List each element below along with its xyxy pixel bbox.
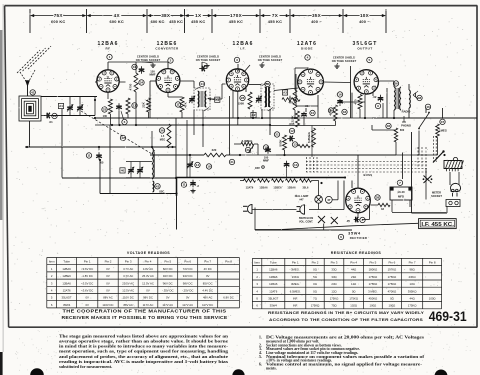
wire [193,110,195,135]
svg-text:450KΩ: 450KΩ [369,297,378,301]
electrolytic 40-40 MFD [390,187,412,200]
svg-text:ON TUBE SOCKET: ON TUBE SOCKET [136,58,161,62]
wire [109,125,111,193]
svg-text:7Ω: 7Ω [313,297,317,301]
svg-text:0V: 0V [186,296,190,300]
svg-text:36: 36 [387,124,391,128]
tube V2 12BE6 converter [156,69,180,93]
svg-text:40: 40 [121,168,125,172]
svg-text:25.5V AC: 25.5V AC [122,281,134,285]
wire [372,117,438,119]
svg-text:34: 34 [140,81,144,85]
svg-text:44Ω: 44Ω [409,297,414,301]
alignment ruler [29,9,31,33]
svg-text:98V DC: 98V DC [143,296,153,300]
wire [365,117,372,118]
svg-text:0V: 0V [106,281,110,285]
svg-text:Pin 2: Pin 2 [105,260,112,264]
ref 42 [30,90,35,95]
svg-text:-.35V DC: -.35V DC [162,289,174,293]
svg-text:37: 37 [441,120,445,124]
svg-text:102Ω: 102Ω [350,304,357,308]
capacitor .05 ref 8 [354,219,356,221]
svg-text:175KΩ: 175KΩ [330,297,339,301]
resistor 220K [296,111,300,127]
wire [130,174,132,178]
ref 46 [425,104,430,109]
wire [95,124,136,126]
tube V4 12AT6 [298,69,324,95]
resistor 22K [126,98,130,114]
resistor 47K [282,98,300,102]
wire [411,132,413,213]
ref 11 [86,153,91,158]
wire [295,67,308,69]
svg-text:10X: 10X [360,13,370,18]
svg-text:<3.6V DC: <3.6V DC [81,267,93,271]
svg-text:18: 18 [207,165,211,169]
wire [449,172,451,185]
svg-text:0Ω: 0Ω [390,297,394,301]
svg-text:0Ω: 0Ω [313,268,317,272]
svg-text:Pin 5: Pin 5 [164,260,171,264]
svg-text:0V: 0V [85,296,89,300]
ref 7 [397,180,402,185]
wire [437,138,439,156]
wire [261,109,263,118]
wire [94,97,96,116]
ref 38 [375,195,380,200]
svg-text:180KΩ: 180KΩ [369,268,378,272]
ref 16 [52,113,57,118]
capacitor bypass [118,103,120,106]
wire [270,125,336,127]
capacitor .05 [199,68,202,70]
wire [295,80,297,90]
wire [323,81,350,84]
svg-text:RECTIFIER: RECTIFIER [350,236,367,240]
wire [332,199,338,201]
page edge artifacts [0,30,2,220]
ruler segment 170X [213,15,230,17]
svg-text:Pin 1: Pin 1 [292,260,299,264]
svg-text:85V DC: 85V DC [203,281,213,285]
svg-text:.01: .01 [49,120,53,124]
wire [323,224,325,230]
svg-text:12AT6: 12AT6 [63,289,71,293]
svg-text:175KΩ: 175KΩ [311,304,320,308]
wire [362,219,370,221]
svg-text:5: 5 [51,296,53,300]
svg-text:455 KC: 455 KC [268,19,282,24]
resistor 500K [283,135,287,150]
test point A1 [215,97,220,102]
svg-text:Volume control at maximum, no: Volume control at maximum, no signal app… [266,362,423,366]
ref 9 [375,103,380,108]
svg-text:Tube: Tube [270,260,277,264]
svg-text:16: 16 [53,114,57,118]
wire [210,98,222,100]
svg-text:5: 5 [369,58,371,62]
test point 40 [120,168,125,173]
svg-text:400 ~: 400 ~ [311,19,322,24]
svg-text:0V: 0V [106,289,110,293]
svg-text:100Ω: 100Ω [389,304,396,308]
ruler segment 7X [261,15,271,17]
svg-text:6: 6 [340,235,342,239]
wire [313,118,315,128]
svg-text:6.8V DC: 6.8V DC [223,296,234,300]
ref 45 [265,81,270,86]
svg-text:98Ω: 98Ω [409,268,414,272]
svg-text:175KΩ: 175KΩ [349,297,358,301]
svg-text:175KΩ: 175KΩ [369,282,378,286]
svg-text:Pin 3: Pin 3 [331,260,338,264]
svg-text:Pin 8: Pin 8 [429,260,436,264]
resistor cathode T2 [180,97,184,112]
wire [261,109,263,118]
svg-text:33: 33 [381,207,384,211]
wire [135,92,137,125]
wire [269,125,271,135]
svg-text:BUSS: BUSS [364,173,373,177]
svg-text:Pin 7: Pin 7 [204,260,211,264]
wire [175,147,177,178]
svg-text:11: 11 [182,183,186,187]
svg-text:RECEIVER MAKES IT POSSIBLE TO: RECEIVER MAKES IT POSSIBLE TO BRING YOU … [62,315,228,320]
switch lever [433,152,444,163]
svg-text:OFF: OFF [255,166,261,170]
svg-text:35L6GT: 35L6GT [62,296,72,300]
svg-text:19: 19 [264,146,268,150]
ref 13 [292,142,297,147]
svg-text:2: 2 [256,275,258,279]
wire [61,109,63,178]
svg-text:45: 45 [266,82,270,86]
svg-text:ON TUBE SOCKET: ON TUBE SOCKET [258,58,283,62]
svg-text:44: 44 [200,82,204,86]
svg-text:5.: 5. [259,355,262,359]
wire [254,208,256,231]
wire [343,181,345,210]
svg-text:.2: .2 [197,184,200,188]
svg-text:34: 34 [329,109,333,113]
svg-text:#47: #47 [299,199,304,202]
wire [175,118,177,147]
wire [452,200,454,207]
wire [312,180,317,182]
capacitor .01 [303,112,305,114]
wire [446,207,448,214]
wire [364,93,366,102]
ref 12 [289,128,294,133]
ref 31 [229,159,234,164]
svg-text:12BA6: 12BA6 [269,268,278,272]
svg-text:197KΩ: 197KΩ [388,268,397,272]
svg-text:1: 1 [51,267,53,271]
svg-text:150K: 150K [238,102,244,106]
switch [419,113,429,128]
svg-text:175KΩ: 175KΩ [369,275,378,279]
svg-text:35W4: 35W4 [348,231,361,235]
svg-text:0V: 0V [206,274,210,278]
resistor 470 ohm cathode [358,95,362,110]
svg-text:METER: METER [432,191,441,195]
ref 11 [132,103,137,108]
AC plug [248,205,253,214]
svg-text:Pin 3: Pin 3 [125,260,132,264]
wire [408,84,410,90]
svg-text:OUTPUT: OUTPUT [357,47,372,51]
svg-text:4.4V DC: 4.4V DC [202,289,213,293]
svg-text:470KΩ: 470KΩ [388,289,397,293]
wire [41,115,45,117]
wire [391,200,393,212]
wire [377,80,379,82]
svg-text:117V AC: 117V AC [143,303,154,307]
svg-text:12BA6: 12BA6 [287,186,296,189]
svg-text:3 MEG.: 3 MEG. [368,289,378,293]
svg-text:-1.8V DC: -1.8V DC [81,274,93,278]
svg-text:9: 9 [377,104,379,108]
svg-text:600 KC: 600 KC [51,19,65,24]
svg-text:116V DC: 116V DC [102,303,113,307]
svg-text:12.5V AC: 12.5V AC [142,281,154,285]
wire [339,105,341,107]
wire [369,196,371,204]
wire [357,155,359,188]
wire [151,131,153,144]
svg-text:400 ~: 400 ~ [359,19,370,24]
wire [237,91,239,125]
ref 6 [338,234,343,239]
svg-text:110V DC: 110V DC [123,296,134,300]
svg-text:4X: 4X [114,13,121,18]
svg-text:72V DC: 72V DC [183,267,193,271]
pointer wire [352,223,418,226]
wire [357,213,359,217]
ref 34 [139,80,144,85]
wire [135,62,137,73]
svg-text:Pin 5: Pin 5 [369,260,376,264]
punch hole [232,369,244,375]
wire [69,97,71,105]
svg-text:THE COOPERATION OF THE MANUFAC: THE COOPERATION OF THE MANUFACTURER OF T… [63,309,227,314]
svg-text:3.7V AC: 3.7V AC [123,267,133,271]
wire [69,112,71,116]
svg-text:.05: .05 [100,161,104,165]
svg-text:48: 48 [418,96,422,100]
svg-text:RESISTANCE READINGS: RESISTANCE READINGS [331,251,382,255]
tube V5 35L6GT output [354,70,378,94]
wire [149,95,151,118]
svg-text:12BA6: 12BA6 [62,267,71,271]
svg-text:.05: .05 [346,219,350,223]
wire [335,121,337,126]
svg-text:I.F. 455 KC.: I.F. 455 KC. [421,222,454,228]
svg-text:MMF: MMF [263,159,269,163]
svg-text:175KΩ: 175KΩ [388,275,397,279]
capacitor C1 .01 [44,115,47,117]
svg-text:6.: 6. [259,362,262,366]
ruler segment 38X [148,15,161,17]
wire [244,65,250,72]
wire [412,212,448,214]
svg-text:0V: 0V [106,267,110,271]
wire [377,80,395,82]
svg-text:12BA6: 12BA6 [259,186,268,189]
ref 30 [245,147,250,152]
wire [181,112,183,118]
long wires mid [95,117,295,119]
wire [229,96,231,155]
svg-text:455 KC: 455 KC [169,19,183,24]
wire [240,154,285,156]
svg-text:Pin 6: Pin 6 [388,260,395,264]
svg-text:470: 470 [354,99,358,104]
wire [202,110,204,147]
wire [150,154,204,156]
svg-text:46: 46 [426,105,430,109]
svg-text:35L6GT: 35L6GT [268,297,278,301]
svg-text:ments.: ments. [266,366,277,370]
wire [442,108,444,118]
wire [130,162,132,168]
wire [284,150,286,155]
svg-text:7X: 7X [272,13,279,18]
wire [98,147,100,150]
svg-text:395KΩ: 395KΩ [408,289,417,293]
svg-text:500K: 500K [279,139,283,147]
ref 47 [325,196,332,203]
wire [294,110,296,118]
ref 28 [240,95,245,100]
svg-text:CONVERTER: CONVERTER [155,47,179,51]
svg-text:48V AC: 48V AC [203,296,212,300]
svg-text:MEG: MEG [160,139,166,142]
svg-text:3MEG.: 3MEG. [291,282,300,286]
wire [340,122,342,125]
svg-text:7: 7 [399,181,401,185]
ruler segment 10X [344,15,360,17]
svg-text:3MEG.: 3MEG. [291,268,300,272]
svg-text:12BA6: 12BA6 [269,282,278,286]
ref 19 [263,145,268,150]
svg-text:4: 4 [256,289,258,293]
wire [370,203,373,205]
svg-text:5: 5 [256,297,258,301]
svg-text:23Ω: 23Ω [331,282,336,286]
test point A3 [282,90,287,95]
svg-text:35L6: 35L6 [302,186,309,189]
svg-text:4: 4 [51,289,53,293]
svg-text:117V AC: 117V AC [182,303,193,307]
svg-text:23Ω: 23Ω [351,275,356,279]
svg-text:Pin 4: Pin 4 [350,260,357,264]
svg-text:A1: A1 [59,104,63,108]
svg-text:94V DC: 94V DC [163,274,173,278]
IF 455 KC box [419,219,457,229]
ref 4 [305,55,310,60]
wire [318,203,320,209]
ref 36 [393,81,398,86]
svg-text:455 KC: 455 KC [229,19,243,24]
svg-text:0V: 0V [85,303,89,307]
variable cap C14 [189,161,191,164]
svg-text:12BE6: 12BE6 [269,275,278,279]
wire [232,90,234,118]
svg-text:33Ω: 33Ω [331,275,336,279]
svg-text:14: 14 [196,163,200,167]
ref 41 [120,135,125,140]
ruler segment 35X [291,15,312,17]
svg-text:11: 11 [87,154,91,158]
B+ buss dashed [306,161,428,163]
svg-text:Tube: Tube [63,260,70,264]
svg-text:100: 100 [103,114,108,118]
svg-text:12Ω: 12Ω [331,289,336,293]
osc coil L2 [152,148,153,179]
svg-text:Pin 8: Pin 8 [225,260,232,264]
svg-text:98V DC: 98V DC [183,281,193,285]
svg-text:94V DC: 94V DC [183,274,193,278]
svg-text:0V: 0V [166,296,170,300]
svg-text:A3: A3 [283,91,287,95]
svg-text:12: 12 [290,129,294,133]
svg-text:75X: 75X [54,13,64,18]
ref 2 [168,58,173,63]
wire [392,203,398,205]
speaker [409,90,410,108]
line cord resistor [444,161,462,169]
ref 8 [360,217,365,222]
svg-text:4: 4 [307,56,309,60]
svg-text:96V DC: 96V DC [163,281,173,285]
wire [107,62,109,70]
interlock plug male [300,205,305,214]
wire [252,110,254,118]
svg-text:A2: A2 [252,113,256,117]
heater string [240,180,244,182]
svg-text:12BA6: 12BA6 [62,281,71,285]
svg-text:38: 38 [376,196,380,200]
svg-text:38X: 38X [161,13,171,18]
wire [62,177,176,179]
wire [371,125,373,130]
ref 34 [328,108,333,113]
svg-text:5Ω: 5Ω [313,275,317,279]
ruler segment 1X [185,15,193,17]
svg-text:175KΩ: 175KΩ [408,304,417,308]
wire [255,207,303,209]
tube V3 12BA6 IF [226,69,248,91]
tube V1 12BA6 RF [97,70,119,92]
svg-text:0Ω: 0Ω [352,289,356,293]
svg-text:Item: Item [254,260,260,264]
punch hole [30,368,44,375]
svg-text:75Ω: 75Ω [331,304,336,308]
wire [391,200,393,204]
resistor 150K [248,92,252,109]
svg-text:VOL. CONT.: VOL. CONT. [299,220,313,223]
wire [107,92,109,99]
ref 11 [175,102,180,107]
wire [95,81,97,83]
svg-text:470K: 470K [288,95,292,103]
svg-text:Pin 7: Pin 7 [409,260,416,264]
svg-text:<3.5V DC: <3.5V DC [81,281,93,285]
svg-text:12.5V AC: 12.5V AC [122,289,134,293]
